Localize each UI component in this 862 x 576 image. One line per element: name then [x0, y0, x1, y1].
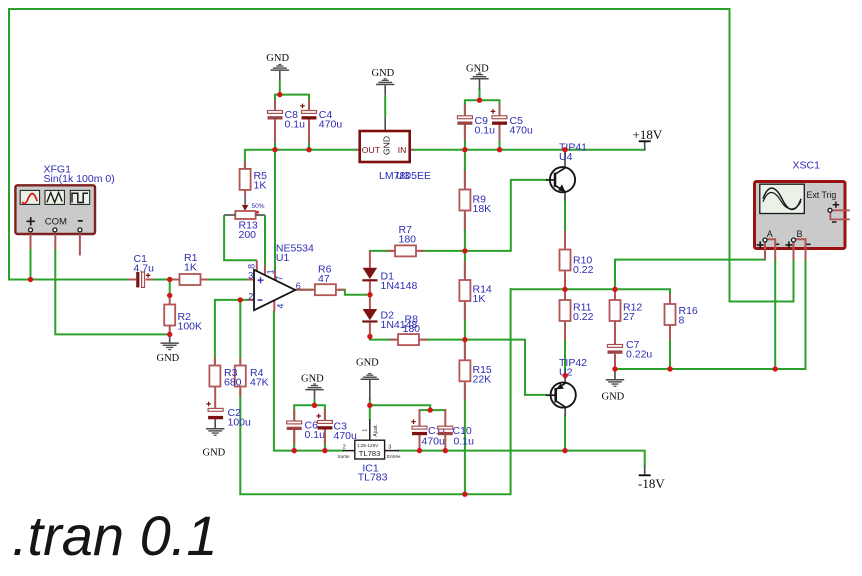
- capacitor C2: [206, 402, 223, 428]
- svg-text:GND: GND: [372, 68, 395, 79]
- resistor R7: [387, 245, 424, 256]
- wire output node rail y=289.3: [511, 289, 670, 301]
- wire C8 bottom to rail: [274, 120, 276, 150]
- wire op-amp pin2 node left: [215, 300, 248, 362]
- svg-text:0.1u: 0.1u: [475, 125, 496, 137]
- junction GND_B node: [312, 403, 317, 408]
- capacitor C8: [268, 101, 283, 144]
- wire output node to R12: [614, 289, 616, 297]
- resistor R12: [610, 289, 621, 344]
- ground under C7: [606, 369, 624, 387]
- capacitor C6: [287, 410, 302, 445]
- junction R7 R9 R14 node: [462, 248, 467, 253]
- wire R8 line from diode bottom corner: [370, 339, 394, 341]
- svg-text:TL783: TL783: [359, 449, 381, 458]
- svg-text:8: 8: [679, 314, 685, 326]
- svg-text:-18V: -18V: [638, 476, 665, 491]
- svg-text:U4: U4: [559, 151, 573, 163]
- svg-text:0.1u: 0.1u: [454, 436, 475, 448]
- junction A- ground line: [773, 366, 778, 371]
- resistor R6: [298, 284, 345, 295]
- wire LM7805 IN to right rail and +18V: [413, 149, 645, 151]
- svg-text:27: 27: [623, 311, 635, 323]
- oscilloscope channel B terminal ring: [792, 238, 796, 242]
- wire R7 node line and riser to TIP41 base: [420, 180, 546, 251]
- ground above C6 C3: [305, 383, 323, 405]
- svg-text:1N4148: 1N4148: [381, 280, 418, 292]
- resistor R2: [164, 295, 175, 334]
- ground above C9 C5: [470, 73, 488, 90]
- wire R11 bottom to TIP42: [564, 325, 566, 379]
- svg-text:B: B: [797, 229, 803, 239]
- wire C10 top lead: [444, 410, 446, 426]
- wire R7 left corner down to D1: [370, 250, 392, 252]
- svg-text:A: A: [767, 229, 773, 239]
- wire C10 bottom to -18V rail: [444, 435, 446, 451]
- diode D1 1N4148: [362, 251, 377, 295]
- capacitor C4: [300, 101, 316, 144]
- svg-text:GND: GND: [356, 357, 379, 368]
- svg-text:GND: GND: [157, 353, 180, 364]
- wire R6 right jog to diode node: [339, 290, 366, 295]
- oscilloscope channel A terminal ring: [763, 238, 767, 242]
- svg-text:0.1u: 0.1u: [305, 429, 326, 441]
- junction C5 rail: [497, 147, 502, 152]
- ground above TL783 adjust: [361, 373, 379, 400]
- svg-text:.tran 0.1: .tran 0.1: [12, 504, 217, 567]
- XFG1 terminal rings: [29, 228, 82, 232]
- wire R15 bottom to feedback line: [464, 385, 466, 495]
- resistor R16: [665, 294, 676, 340]
- ground above LM7805: [376, 78, 394, 131]
- svg-text:3: 3: [388, 444, 391, 450]
- resistor R3: [209, 358, 220, 409]
- svg-text:470u: 470u: [319, 119, 343, 131]
- wire R14 bottom to R8 node: [464, 305, 466, 358]
- XFG1 terminal stubs: [31, 234, 80, 256]
- junction GND3 node: [477, 98, 482, 103]
- capacitor C11: [411, 419, 427, 435]
- svg-text:3: 3: [248, 270, 253, 280]
- svg-text:GND: GND: [466, 63, 489, 74]
- wire GND mid node to TL783 adjust: [369, 400, 371, 420]
- oscilloscope channel B stubs: [794, 239, 806, 259]
- junction output node R10 R11: [562, 287, 567, 292]
- svg-text:1K: 1K: [184, 262, 197, 274]
- junction C4 rail: [306, 147, 311, 152]
- svg-text:0.1u: 0.1u: [285, 119, 306, 131]
- wire main input line y=279.5: [9, 279, 128, 281]
- svg-text:18K: 18K: [473, 203, 492, 215]
- ground under R2: [161, 334, 179, 350]
- junction C9 rail: [462, 147, 467, 152]
- svg-text:U1: U1: [276, 252, 290, 264]
- capacitor C5: [491, 105, 507, 141]
- svg-text:50%: 50%: [252, 203, 265, 210]
- wire adjust node to C11 C10 tops: [370, 405, 430, 410]
- wire R13 right lead down to pin 1: [264, 215, 266, 266]
- resistor R4: [235, 358, 246, 397]
- junction pin2 feedback node: [238, 297, 243, 302]
- resistor R11: [560, 289, 571, 340]
- resistor R14: [459, 261, 470, 320]
- resistor R5: [240, 162, 251, 196]
- wire GND1 node to C8 C4 tops: [275, 95, 309, 111]
- instrument XFG1 function generator: [15, 185, 95, 234]
- svg-text:470u: 470u: [334, 430, 358, 442]
- svg-text:100K: 100K: [178, 321, 203, 333]
- svg-text:180: 180: [403, 323, 421, 335]
- ground under C2: [206, 428, 224, 436]
- junction C1 R1 node: [167, 277, 172, 282]
- svg-text:TL783: TL783: [358, 471, 388, 483]
- wire GND_B node to C6 C3 tops: [294, 405, 325, 421]
- wire TIP41 emitter to R10: [564, 201, 566, 247]
- wire outer frame top: [9, 9, 730, 302]
- op-amp U1 NE5534 pin stubs: [248, 260, 300, 311]
- wire XFG1 plus terminal down: [30, 248, 32, 280]
- junction adjust node: [367, 403, 372, 408]
- svg-text:Ajust.: Ajust.: [373, 424, 379, 437]
- power -18V terminal: [639, 466, 651, 476]
- capacitor C1: [128, 272, 154, 287]
- junction C3 sortie line: [322, 448, 327, 453]
- wire C11 C10 top jog: [420, 409, 446, 411]
- junction C6 sortie line: [292, 448, 297, 453]
- wire C6 bottom to sortie line: [293, 430, 295, 451]
- junction R11 TIP42 emitter: [563, 373, 568, 378]
- svg-text:COM: COM: [45, 217, 67, 228]
- oscilloscope XSC1: [755, 182, 846, 249]
- junction C11 C10 jog: [428, 407, 433, 412]
- capacitor C9: [457, 105, 472, 141]
- svg-text:GND: GND: [266, 53, 289, 64]
- wire GND3 stem lower: [479, 89, 481, 100]
- regulator U3 LM7805: [357, 131, 414, 162]
- wire rail to op-amp pin7: [274, 150, 276, 271]
- wire TL783 sortie to C6 C3 and op-amp pin4: [274, 312, 343, 451]
- transistor U2 TIP42: [546, 378, 576, 416]
- junction R2 top: [167, 293, 172, 298]
- svg-text:Entrée: Entrée: [387, 454, 401, 459]
- wire R4 bottom to feedback bottom line: [240, 289, 510, 494]
- junction output node R12 riser: [612, 287, 617, 292]
- svg-text:7: 7: [275, 276, 285, 281]
- svg-text:47: 47: [318, 273, 330, 285]
- wire R13 left lead loop to pin 8: [224, 215, 257, 260]
- wire C3 bottom to sortie line: [324, 430, 326, 451]
- svg-text:U3: U3: [396, 170, 410, 182]
- svg-text:0.22u: 0.22u: [626, 349, 652, 361]
- wire R9 bottom to R7 node: [464, 214, 466, 251]
- wire C1 to R1: [154, 279, 178, 281]
- wire C5 bottom to rail: [499, 125, 501, 150]
- svg-text:GND: GND: [602, 391, 625, 402]
- svg-text:470u: 470u: [422, 436, 446, 448]
- oscilloscope ext trig stub wires: [830, 210, 849, 219]
- junction diode signal node: [367, 292, 372, 297]
- potentiometer R13: [224, 196, 265, 219]
- wire C11 bottom to -18V rail: [419, 435, 421, 451]
- wire scope A- down to ground line: [774, 260, 776, 369]
- svg-text:1K: 1K: [473, 293, 486, 305]
- resistor R1: [173, 274, 208, 285]
- svg-text:180: 180: [399, 234, 417, 246]
- junction R16 ground line: [667, 366, 672, 371]
- label op-amp pin numbers: [247, 264, 301, 309]
- junction TIP41 collector rail: [562, 147, 567, 152]
- svg-text:+18V: +18V: [633, 127, 663, 142]
- svg-text:4: 4: [276, 304, 286, 309]
- wire output node to R11: [564, 289, 566, 297]
- svg-text:OUT: OUT: [362, 145, 381, 155]
- svg-text:0.22: 0.22: [573, 311, 594, 323]
- svg-text:200: 200: [239, 229, 257, 241]
- svg-text:Sin(1k 100m 0): Sin(1k 100m 0): [44, 173, 115, 185]
- wire TIP42 bottom to -18V rail: [564, 416, 566, 451]
- resistor R9: [459, 171, 470, 230]
- wire C9 bottom to rail and R9: [464, 125, 466, 186]
- svg-text:GND: GND: [203, 447, 226, 458]
- capacitor C3: [316, 410, 332, 445]
- wire TIP41 collector to rail: [564, 150, 566, 152]
- svg-text:100u: 100u: [228, 417, 252, 429]
- svg-text:Sortie: Sortie: [338, 454, 350, 459]
- oscilloscope ext trig terminal ring: [828, 208, 832, 212]
- junction C8 rail: [272, 147, 277, 152]
- transistor U4 TIP41: [546, 152, 575, 201]
- wire -18V rail: [399, 451, 645, 466]
- diode D2 1N4148: [362, 295, 377, 340]
- svg-text:22K: 22K: [473, 374, 492, 386]
- junction C7 ground line: [612, 366, 617, 371]
- junction D2 cathode corner: [367, 334, 372, 339]
- power +18V terminal: [639, 141, 651, 150]
- svg-text:1: 1: [265, 269, 275, 274]
- junction C11 rail: [417, 448, 422, 453]
- wire pin2 node down to R4: [239, 300, 241, 362]
- svg-text:1.25-125V: 1.25-125V: [357, 443, 379, 448]
- wire R16 bottom to ground line: [669, 328, 671, 369]
- resistor R10: [560, 231, 571, 290]
- svg-text:XSC1: XSC1: [793, 159, 821, 171]
- wire A+ riser and horizontal to scope: [615, 260, 765, 290]
- resistor R8: [390, 334, 428, 345]
- oscilloscope channel A stubs: [765, 239, 775, 259]
- wire R1 to op-amp pin3: [204, 279, 248, 281]
- wire R8 right to R15 node to TIP42 base: [423, 340, 547, 395]
- wire C4 bottom to rail: [308, 120, 310, 150]
- svg-text:0.22: 0.22: [573, 264, 594, 276]
- wire scope B+ down to frame: [730, 260, 794, 302]
- wire XFG1 COM down and right to R2 ground node: [55, 248, 166, 334]
- svg-text:8: 8: [247, 264, 257, 269]
- junction GND1 node: [277, 92, 282, 97]
- junction COM R2 ground node: [167, 332, 172, 337]
- wire R14 vertical: [464, 251, 466, 277]
- svg-text:680: 680: [224, 377, 242, 389]
- svg-text:Ext Trig: Ext Trig: [807, 190, 837, 200]
- junction C10 rail: [443, 448, 448, 453]
- svg-text:4.7u: 4.7u: [134, 263, 155, 275]
- svg-text:470u: 470u: [510, 125, 534, 137]
- wire supply rail left y=149.7: [245, 150, 357, 168]
- regulator IC1 TL783: [338, 420, 401, 460]
- svg-text:IN: IN: [398, 145, 407, 155]
- svg-text:1K: 1K: [254, 180, 267, 192]
- svg-text:1: 1: [363, 429, 369, 432]
- svg-text:GND: GND: [382, 136, 392, 155]
- capacitor C10: [438, 426, 453, 435]
- op-amp input polarity marks: [258, 277, 264, 300]
- junction R15 feedback line: [462, 492, 467, 497]
- capacitor C7: [608, 345, 623, 370]
- junction R8 R14 R15 node: [462, 337, 467, 342]
- wire ground line C7 to scope B-: [615, 260, 806, 369]
- junction XFG plus: [28, 277, 33, 282]
- svg-text:2: 2: [248, 292, 253, 302]
- wire GND3 node to C9 C5 tops: [465, 100, 500, 116]
- wire op-amp out to R6: [299, 289, 312, 291]
- ground above C8 C4: [271, 64, 289, 95]
- wire junction to R2 top: [169, 281, 171, 295]
- op-amp U1 NE5534 body: [254, 270, 295, 310]
- wire C11 top lead: [419, 410, 421, 426]
- resistor R15: [459, 342, 470, 401]
- svg-text:47K: 47K: [250, 377, 269, 389]
- svg-text:GND: GND: [301, 373, 324, 384]
- wire R10 bottom to output node: [564, 274, 566, 289]
- junction TIP42 collector -18V rail: [562, 448, 567, 453]
- svg-text:2: 2: [343, 444, 346, 450]
